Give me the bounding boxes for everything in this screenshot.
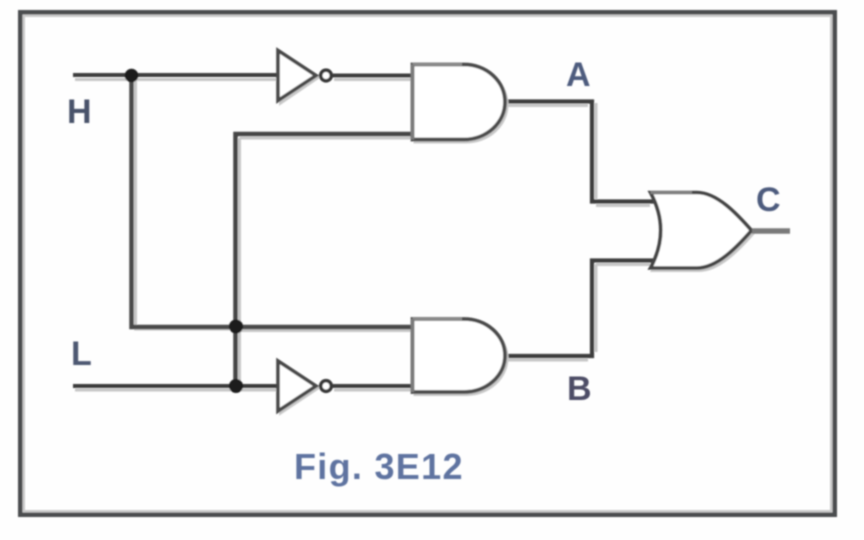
svg-text:Fig. 3E12: Fig. 3E12 (294, 446, 464, 487)
wire L branch up to AND1 bottom input (236, 134, 414, 386)
node junction L (229, 379, 243, 393)
node junction mid crossing (229, 320, 243, 334)
wire A: AND1 output to OR top input (504, 102, 658, 202)
wire H branch down to AND2 top input (132, 75, 414, 327)
OR gate U3 (651, 193, 754, 271)
wire B: AND2 output to OR bottom input (504, 261, 658, 357)
inverter NOT1 triangle (278, 51, 318, 104)
svg-text:C: C (756, 181, 781, 219)
node junction H (125, 69, 139, 83)
AND gate U2 (bottom) (413, 319, 508, 395)
svg-text:H: H (67, 93, 92, 131)
svg-text:A: A (566, 56, 591, 94)
svg-text:L: L (71, 335, 92, 373)
wire NOT1 to AND1 (333, 74, 413, 78)
AND gate U1 (top) (413, 65, 508, 143)
inverter NOT2 bubble (321, 381, 332, 392)
wire L input (73, 384, 278, 388)
wire C output (752, 228, 790, 234)
inverter NOT1 bubble (321, 70, 332, 81)
svg-text:B: B (567, 370, 592, 408)
wire H input (73, 73, 278, 77)
light shadows under wires (75, 79, 650, 390)
inverter NOT2 triangle (278, 361, 318, 413)
wire NOT2 to AND2 (333, 384, 413, 388)
